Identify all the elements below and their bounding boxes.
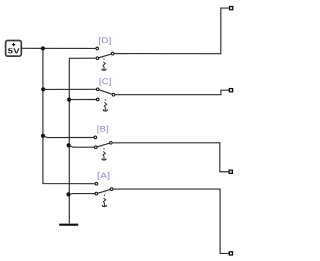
switch SW-A lever (down position) xyxy=(98,190,110,194)
terminal T2 xyxy=(229,89,232,92)
wire switch D common to terminal T1 xyxy=(115,8,230,54)
wire switch C common to terminal T2 xyxy=(115,90,229,95)
wire bus1 vertical (5V rail) xyxy=(43,48,95,183)
wire bus2 to switch B bottom throw xyxy=(69,146,94,148)
terminal T4 xyxy=(229,252,232,255)
switch SW-D top throw contact xyxy=(96,47,99,50)
switch SW-A actuator symbol xyxy=(102,195,106,207)
node junction dot bus2 to A bottom xyxy=(66,192,70,196)
switch SW-D common pole contact xyxy=(111,52,114,55)
wire bus2 to switch A bottom throw xyxy=(69,193,95,196)
battery B1 5V source box xyxy=(6,41,22,57)
wire bus1 to switch B top throw xyxy=(43,136,94,138)
switch SW-A top throw contact xyxy=(95,182,98,185)
wire bus2 vertical (ground rail) xyxy=(69,58,95,223)
switch SW-B common pole contact xyxy=(110,142,113,145)
switch SW-D label [D] xyxy=(99,37,111,45)
switch SW-A common pole contact xyxy=(110,188,113,191)
wire bus2 to switch C bottom throw xyxy=(69,99,96,101)
switch SW-B actuator symbol xyxy=(102,148,106,160)
switch SW-C common pole contact xyxy=(112,93,115,96)
switch SW-A bottom throw contact xyxy=(95,192,98,195)
switch SW-B top throw contact xyxy=(94,136,97,139)
wire 5V feed from battery to switch D top throw xyxy=(22,47,96,49)
switch SW-D bottom throw contact xyxy=(96,57,99,60)
switch SW-D lever (down position) xyxy=(99,54,111,58)
switch SW-A label [A] xyxy=(98,172,110,180)
terminal T3 xyxy=(229,170,232,173)
wire switch B common to terminal T3 xyxy=(113,143,229,172)
switch SW-C lever (up position) xyxy=(99,90,112,94)
terminal T1 xyxy=(230,7,233,10)
node junction dot bus1 to C top xyxy=(41,87,45,91)
battery plus marker xyxy=(12,43,15,46)
node junction dot bus2 to C bottom xyxy=(67,98,71,102)
switch SW-D actuator symbol xyxy=(102,58,106,70)
switch SW-B label [B] xyxy=(97,126,108,134)
switch SW-C bottom throw contact xyxy=(96,98,99,101)
switch SW-C label [C] xyxy=(100,78,111,86)
ground symbol xyxy=(59,224,78,226)
battery value label 5V xyxy=(8,48,19,53)
switch SW-B lever (down position) xyxy=(97,143,109,147)
switch SW-C actuator symbol xyxy=(103,99,107,111)
wire bus1 to switch C top throw xyxy=(43,88,96,90)
node junction dot bus2 to B bottom xyxy=(67,143,71,147)
wire switch A common to terminal T4 xyxy=(113,189,229,253)
switch SW-B bottom throw contact xyxy=(95,146,98,149)
node junction dot bus1 x 5V feed xyxy=(41,46,45,50)
switch SW-C top throw contact xyxy=(96,88,99,91)
node junction dot bus1 to B top xyxy=(41,134,45,138)
